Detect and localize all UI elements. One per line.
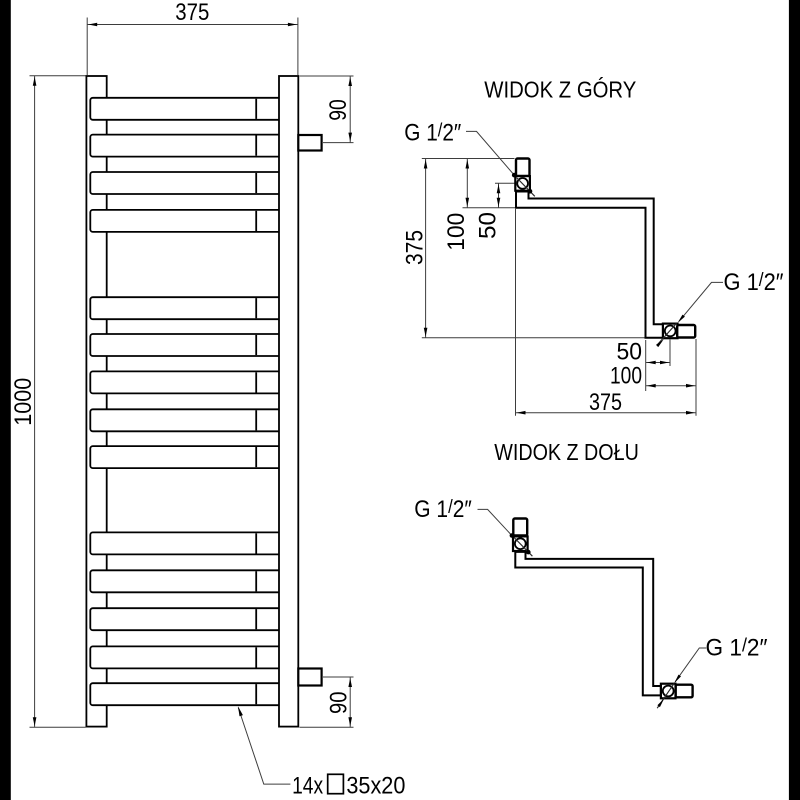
leader G 1/2 bottom view right [675,648,706,682]
top right connection stub [298,135,321,151]
valve symbol top view left [515,176,530,191]
rung 6 [90,334,292,356]
svg-text:1000: 1000 [10,378,37,426]
svg-text:375: 375 [589,389,622,416]
svg-text:50: 50 [617,339,643,366]
pipe outline bottom view [515,552,661,696]
rung 11 [90,570,292,592]
arrow 90 bottom [348,133,352,142]
ext line valve2 centre x670 [669,340,671,367]
arrow 375 left [88,23,97,27]
dim line 1000 [34,76,36,728]
bottom right connection stub [298,669,321,686]
rung 2 [90,135,292,157]
svg-text:375: 375 [402,230,429,265]
arrow 90 bottom dim top [348,678,352,687]
right rail [279,76,298,727]
rung 3 [90,172,292,194]
frame bar left [0,0,11,800]
leader line 14x [238,708,290,785]
svg-text:G 1/2″: G 1/2″ [404,119,461,146]
counter dot valve top view left [528,189,533,194]
dim line 90 top right [349,76,351,143]
svg-text:WIDOK Z GÓRY: WIDOK Z GÓRY [484,76,636,102]
svg-text:100: 100 [443,213,470,251]
rung 10 [90,532,292,554]
rung 5 divider line [255,298,257,318]
ext line 90 bottom right b [300,726,354,728]
dim line 375 top [87,24,298,26]
ext line valve centre y183 [495,182,517,184]
rung 9 divider line [255,447,257,467]
ext line pipe bottom y208 [463,207,517,209]
rung 8 [90,409,292,431]
counter arrow valve bottom view right [657,699,664,708]
leader G 1/2 top view right [679,282,723,321]
ext line top dim 375 right [297,18,299,76]
rung 4 [90,210,292,232]
stub fitting G1/2 top view left [516,159,530,177]
rung 10 divider line [255,533,257,553]
leader arrow 14x [238,706,243,716]
counter dot valve bottom view left [526,550,531,555]
ext line 90 top right b [323,142,354,144]
dim line 100 vertical [466,159,468,208]
counter arrow valve top view right [656,339,664,347]
pipe outline top view [516,192,664,338]
ext line left x515 [515,209,517,416]
rung 1 [90,98,292,120]
ext line 90 bottom right a [323,676,354,678]
rung 7 divider line [255,372,257,392]
svg-text:WIDOK Z DOŁU: WIDOK Z DOŁU [494,439,639,465]
dim line 50 bottom [646,362,670,364]
frame bar right [789,0,800,800]
rung 9 [90,446,292,468]
svg-text:90: 90 [325,99,352,121]
ext line 1000 bottom [30,726,86,728]
dim line 375 bottom [516,412,697,414]
arrow 90 bottom dim bottom [348,717,352,726]
rung 1 divider line [255,99,257,119]
svg-text:35x20: 35x20 [346,773,405,800]
rung 14 divider line [255,684,257,704]
rung 5 [90,297,292,319]
valve symbol bottom view right [661,684,676,699]
leader G 1/2 top view left [466,131,514,174]
ext line 90 top right a [300,75,354,77]
svg-text:G 1/2″: G 1/2″ [414,496,472,523]
arrow 375 right [288,23,297,27]
rung 14 [90,683,292,705]
rung 13 divider line [255,647,257,667]
rung 7 [90,371,292,393]
valve symbol top view right [663,324,678,339]
svg-text:375: 375 [175,0,209,26]
dim line 90 bottom right [349,677,351,727]
valve symbol bottom view left [513,536,528,551]
svg-text:14x: 14x [292,773,323,800]
ext line top dim 375 left [86,18,88,76]
rung 11 divider line [255,571,257,591]
svg-text:100: 100 [610,363,642,390]
stub fitting G1/2 bottom view right [676,685,693,698]
svg-text:90: 90 [325,692,352,715]
rung 13 [90,646,292,668]
ext line bottom datum y338 [422,337,645,339]
stub fitting G1/2 bottom view left [513,519,527,536]
ext line 1000 top [30,75,86,77]
svg-text:G 1/2″: G 1/2″ [724,269,784,296]
ext line stub right x696 [695,339,697,416]
rung 4 divider line [255,211,257,231]
rung 6 divider line [255,335,257,355]
rung 2 divider line [255,136,257,156]
arrow 1000 bottom [33,717,37,726]
dim line 50 vertical [498,183,500,208]
ext line pipe corner x646 [645,340,647,391]
leader G 1/2 bottom view left [478,509,512,535]
rung 3 divider line [255,173,257,193]
rung 8 divider line [255,410,257,430]
svg-text:G 1/2″: G 1/2″ [706,634,768,661]
arrow 1000 top [33,77,37,86]
left rail [86,76,106,727]
rung 12 [90,608,292,630]
arrow 90 top [348,77,352,86]
square profile symbol [328,774,344,793]
stub fitting G1/2 top view right [677,325,695,338]
rung 12 divider line [255,609,257,629]
ext line top datum y158 [422,158,515,160]
svg-text:50: 50 [475,212,502,239]
dim line 100 bottom [646,385,696,387]
dim line 375 vertical [425,159,427,338]
